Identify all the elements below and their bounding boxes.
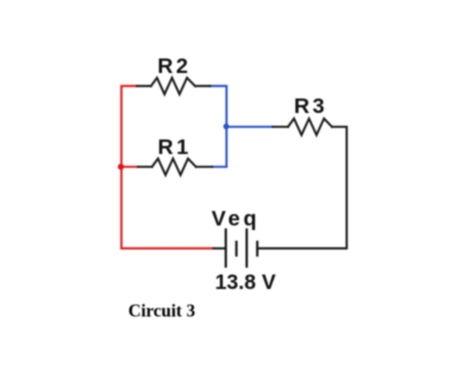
svg-text:Circuit 3: Circuit 3: [128, 300, 195, 320]
svg-text:R1: R1: [158, 135, 191, 159]
svg-text:13.8 V: 13.8 V: [215, 271, 276, 294]
svg-text:R2: R2: [158, 54, 191, 78]
svg-text:R3: R3: [294, 94, 327, 118]
svg-text:Veq: Veq: [212, 206, 260, 230]
